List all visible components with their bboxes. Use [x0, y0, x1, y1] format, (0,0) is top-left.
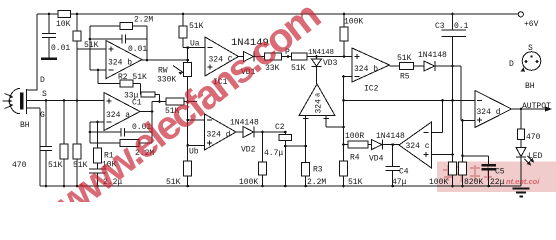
svg-text:10K: 10K	[56, 20, 71, 29]
resistor 51K (P to comparator)	[292, 53, 308, 60]
svg-text:D: D	[40, 76, 45, 85]
diode VD4 1N4148	[383, 140, 400, 150]
svg-text:100R: 100R	[345, 132, 364, 141]
watermark band logo glyphs	[443, 165, 493, 182]
capacitor C3 0.1	[442, 14, 467, 162]
svg-text:RW: RW	[158, 67, 168, 76]
potentiometer RW 330K	[187, 48, 189, 146]
wire 324b inverting input	[90, 69, 106, 71]
wire output AUTPOT	[512, 108, 546, 110]
resistor 2.2M (324a feedback)	[90, 102, 152, 144]
svg-text:4.7μ: 4.7μ	[264, 149, 283, 158]
diode 1N4148 (after R5)	[435, 61, 461, 121]
resistor 51K (bias b)	[76, 101, 78, 187]
svg-text:324 d: 324 d	[207, 131, 231, 140]
ground bar (left)	[41, 57, 57, 60]
resistor 470	[520, 109, 522, 148]
wire IC2 - input bus	[344, 77, 353, 187]
svg-text:324 b: 324 b	[354, 65, 378, 74]
svg-text:1N4148: 1N4148	[418, 51, 447, 60]
svg-text:1N4148: 1N4148	[308, 49, 334, 57]
capacitor C4 47u	[386, 145, 400, 186]
wire comparator - input / resistor R3 2.2M	[305, 116, 307, 186]
resistor 820K	[462, 121, 464, 187]
wire 324c - input	[432, 100, 443, 132]
svg-text:R3: R3	[313, 166, 323, 175]
resistor 51K (bias a)	[63, 101, 65, 187]
svg-text:0.01: 0.01	[128, 45, 147, 54]
wire bias to 324b + input	[77, 49, 106, 101]
wire rail to mic drain	[27, 14, 37, 90]
diode VD3 1N4148	[312, 57, 322, 85]
node rail junctions	[48, 13, 51, 16]
op-amp 324 C (IC1)	[205, 37, 239, 76]
op-amp 324 c (IC2, mirrored)	[399, 122, 432, 168]
resistor 51K (mix horizontal)	[152, 101, 197, 103]
resistor 100K (rail to IC2 +)	[343, 14, 345, 57]
wire 324d + input	[463, 120, 475, 122]
svg-text:1N4148: 1N4148	[230, 119, 259, 128]
op-amp 324 a (IC1)	[104, 93, 140, 131]
wire 324c + input	[432, 154, 453, 156]
svg-text:0.01: 0.01	[51, 44, 70, 53]
LED	[516, 157, 526, 186]
resistor R4 100R	[344, 144, 372, 146]
svg-text:100K: 100K	[344, 18, 363, 27]
svg-text:51K: 51K	[84, 41, 99, 50]
svg-text:51K: 51K	[291, 64, 306, 73]
wire mic gate to ground rail	[27, 108, 40, 186]
svg-text:R4: R4	[350, 154, 360, 163]
op-amp 324 d (IC1)	[205, 114, 237, 150]
wire 324d inputs	[188, 120, 205, 145]
capacitor 470	[40, 101, 52, 187]
resistor 33K	[265, 53, 282, 60]
diode VD2 1N4148	[236, 127, 285, 138]
diode VD1 1N4149	[239, 52, 265, 62]
resistor 51K (bus to ground)	[340, 161, 348, 176]
svg-text:470: 470	[12, 161, 27, 170]
svg-text:324 b: 324 b	[108, 59, 132, 68]
op-amp 324 b (IC1)	[106, 41, 142, 79]
node P	[282, 56, 292, 58]
svg-text:+6V: +6V	[524, 20, 539, 29]
op-amp 324 a (IC2, vertical)	[299, 84, 335, 116]
wire C node to comparator	[285, 145, 305, 147]
capacitor 0.01 decoupling (left)	[42, 14, 56, 59]
wire comparator + input	[326, 116, 343, 127]
svg-text:R2 51K: R2 51K	[118, 73, 147, 82]
svg-text:VD4: VD4	[369, 155, 384, 164]
svg-text:BH: BH	[525, 82, 535, 91]
svg-text:Ub: Ub	[189, 148, 199, 157]
capacitor C1 33u	[141, 84, 160, 102]
resistor R1 10K with capacitor 2.2u	[89, 122, 106, 186]
svg-text:LED: LED	[528, 152, 543, 161]
svg-text:51K: 51K	[48, 161, 63, 170]
svg-text:51K: 51K	[189, 22, 204, 31]
svg-text:nt.ent.coi: nt.ent.coi	[506, 177, 540, 186]
svg-text:324 d: 324 d	[477, 108, 501, 117]
wire 324a inverting input	[90, 121, 104, 123]
resistor R5 51K	[390, 65, 425, 67]
wire top supply rail	[37, 13, 518, 15]
svg-text:2.2M: 2.2M	[134, 16, 153, 25]
capacitor 0.01 (324b feedback)	[90, 26, 147, 60]
svg-text:G: G	[40, 111, 45, 120]
svg-text:BH: BH	[20, 121, 30, 130]
svg-text:51K: 51K	[397, 54, 412, 63]
svg-text:C5: C5	[495, 168, 505, 177]
resistor 51K (rail to Ua)	[182, 14, 184, 48]
wire bias line	[344, 99, 475, 101]
op-amp 324 b (IC2)	[352, 48, 390, 82]
svg-text:C3: C3	[435, 22, 445, 31]
svg-text:330K: 330K	[157, 76, 176, 85]
wire to IC2 + input	[307, 56, 352, 58]
op-amp 324 d (IC2)	[475, 90, 512, 127]
resistor 10K (top-left, in rail)	[58, 11, 71, 18]
svg-text:S: S	[42, 90, 47, 99]
svg-text:324 c: 324 c	[406, 142, 430, 151]
resistor 100K (bottom)	[449, 162, 457, 175]
svg-text:a: a	[315, 93, 323, 97]
svg-text:C2: C2	[275, 123, 285, 132]
node +6V terminal	[518, 12, 523, 17]
svg-text:Ua: Ua	[190, 40, 200, 49]
node Ua / wire to 324C	[183, 47, 205, 49]
resistor R2 51K	[98, 70, 141, 84]
wire 324a output	[140, 111, 152, 113]
resistor 51K (from rail)	[76, 14, 78, 49]
ground (bottom right)	[513, 189, 530, 197]
mic pinout circle BH	[522, 52, 541, 71]
svg-text:324: 324	[315, 99, 324, 114]
capacitor C5 22u	[463, 156, 489, 186]
svg-text:S: S	[528, 44, 533, 53]
svg-text:D: D	[509, 60, 514, 69]
resistor 100K (to ground)	[262, 132, 264, 186]
svg-text:470: 470	[526, 133, 541, 142]
wire mic source to amp input	[27, 100, 104, 102]
capacitor C2 4.7u	[284, 132, 286, 186]
svg-text:0.1: 0.1	[454, 22, 469, 31]
svg-text:VD2: VD2	[241, 146, 256, 155]
capacitor 0.01 (324a feedback)	[90, 122, 152, 143]
wire 324b output	[142, 59, 188, 61]
svg-text:VD3: VD3	[323, 59, 338, 68]
wire bottom ground rail	[40, 185, 521, 187]
svg-text:1N4148: 1N4148	[376, 132, 405, 141]
resistor 51K (Ub to ground)	[187, 145, 189, 186]
watermark pink band	[437, 162, 556, 193]
svg-text:C4: C4	[399, 168, 409, 177]
resistor 2.2M (324b feedback)	[90, 26, 147, 70]
svg-text:IC2: IC2	[364, 85, 379, 94]
svg-text:AUTPOT: AUTPOT	[522, 102, 551, 111]
microphone BH	[3, 76, 48, 130]
svg-text:C1: C1	[132, 99, 142, 108]
svg-text:R5: R5	[400, 73, 410, 82]
svg-text:324 a: 324 a	[106, 111, 130, 120]
